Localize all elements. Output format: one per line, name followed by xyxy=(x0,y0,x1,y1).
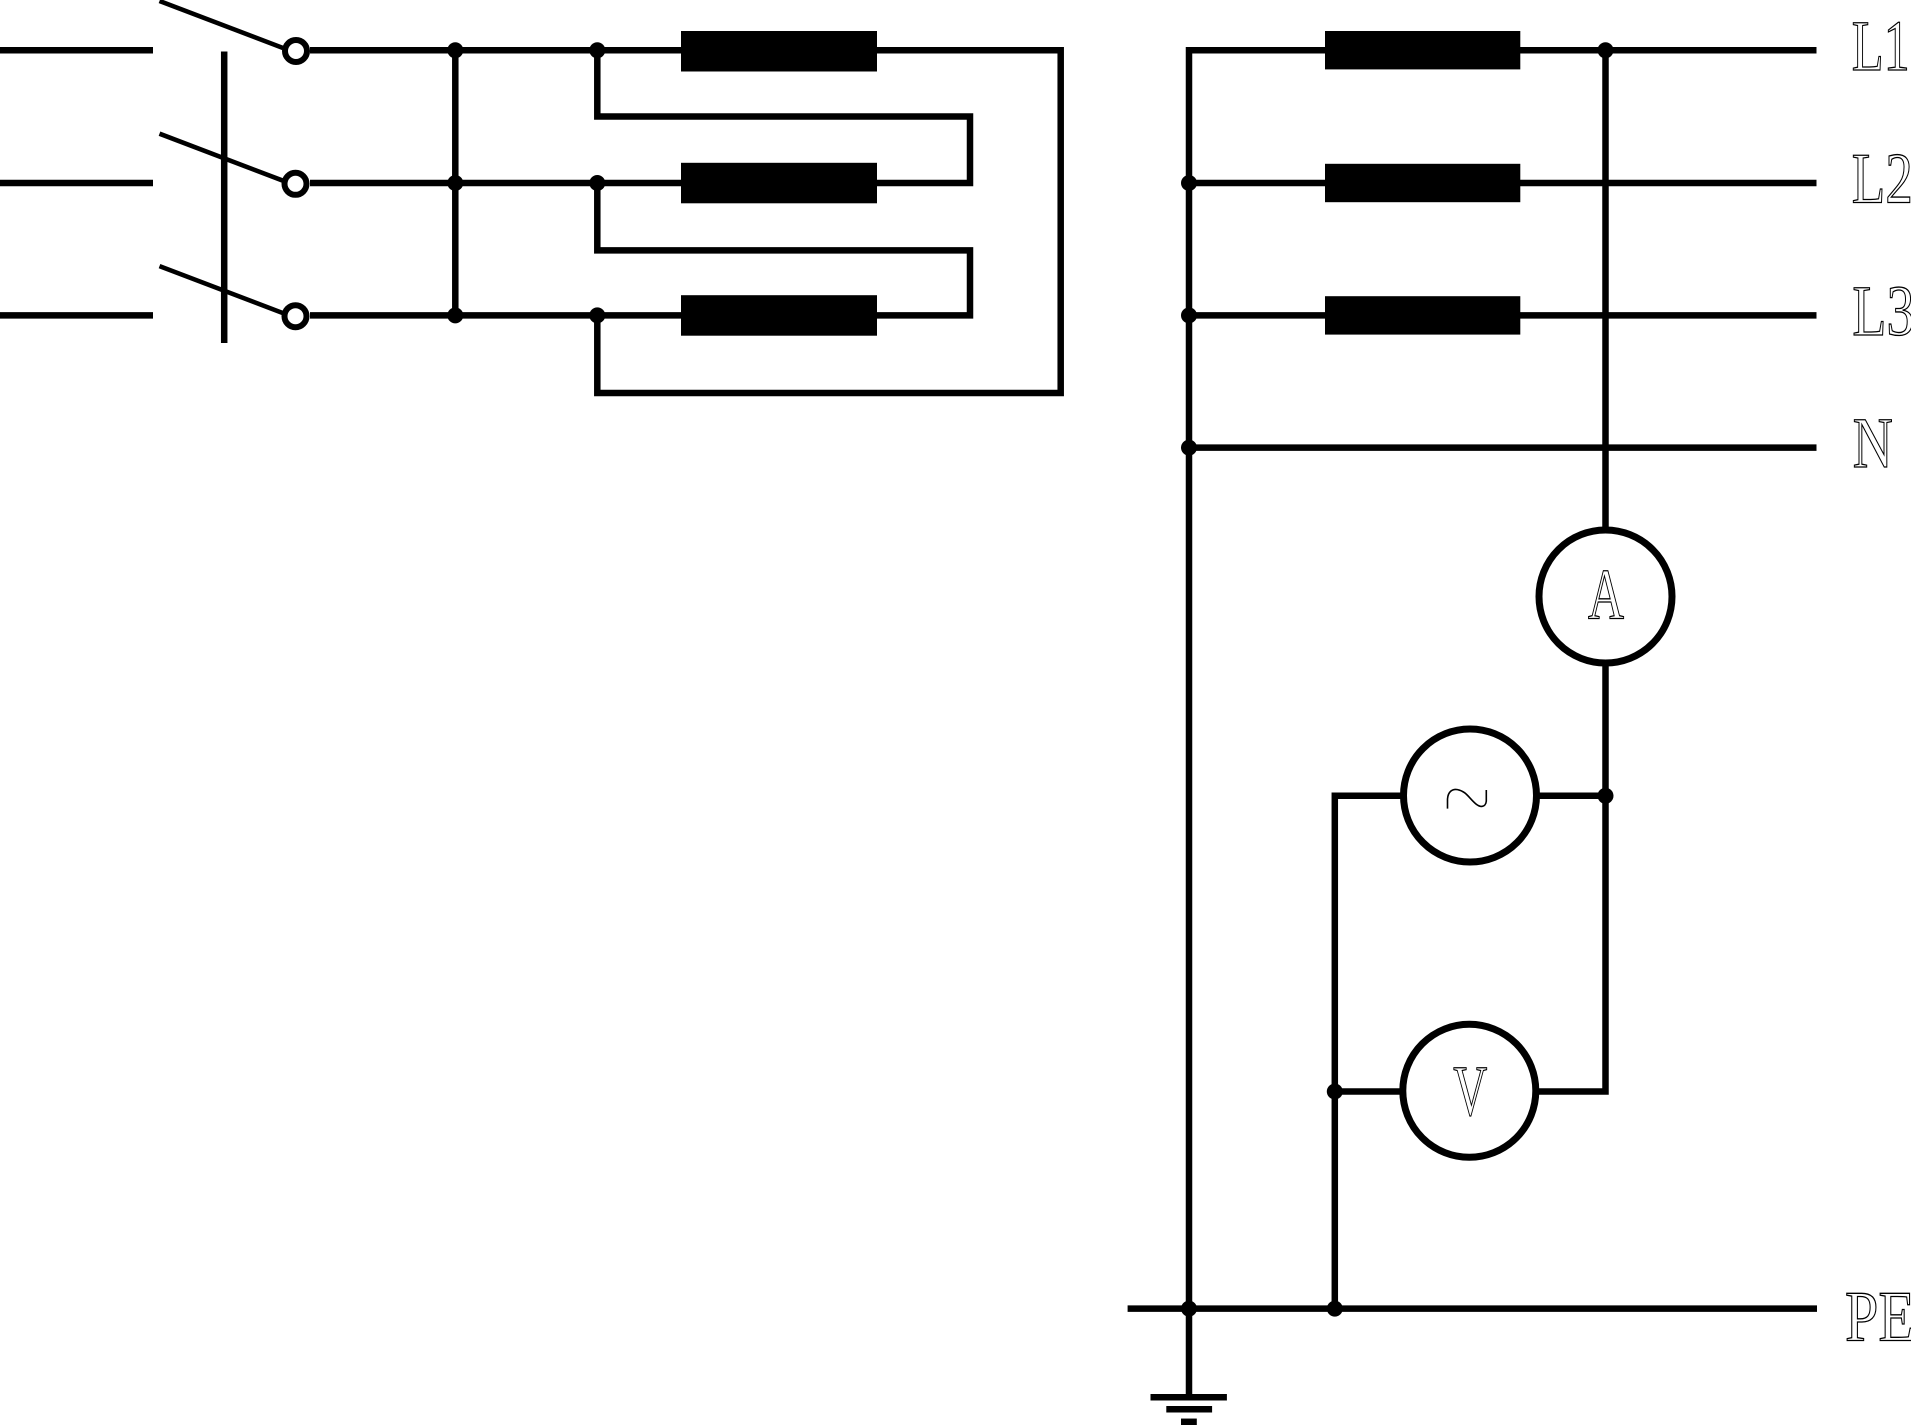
junction dot row1 x455 xyxy=(447,42,463,58)
wire row1 contact to fuse xyxy=(310,47,681,54)
junction dot source node xyxy=(1598,788,1614,804)
junction dot row2 x597 xyxy=(589,175,605,191)
junction dot PE bus xyxy=(1181,1301,1197,1317)
wire voltmeter left terminal xyxy=(1335,1088,1401,1095)
wire row3 contact to fuse xyxy=(310,312,681,319)
svg-text:L3: L3 xyxy=(1852,270,1911,351)
svg-text:A: A xyxy=(1588,554,1624,635)
source G circle xyxy=(1404,729,1537,862)
switch QS blade pole3 xyxy=(160,266,284,313)
fuse FU5 right L2 xyxy=(1325,164,1520,202)
wire input L3 left xyxy=(0,312,153,319)
svg-text:L1: L1 xyxy=(1852,5,1910,86)
wire right bus x1189 with L1 top run xyxy=(1189,50,1817,1396)
wire source right terminal xyxy=(1538,793,1606,800)
fuse FU2 left xyxy=(681,163,877,204)
voltmeter PV circle xyxy=(1403,1024,1536,1157)
svg-text:PE: PE xyxy=(1845,1276,1911,1357)
wire ammeter to source node xyxy=(1602,665,1609,796)
junction dot row1 x597 xyxy=(589,42,605,58)
ground earth bar3 xyxy=(1181,1419,1197,1425)
switch QS blade pole2 xyxy=(160,134,284,181)
wire line L3 right section xyxy=(1189,312,1817,319)
svg-text:N: N xyxy=(1853,402,1893,483)
svg-text:V: V xyxy=(1453,1050,1487,1131)
switch QS link bar xyxy=(221,52,228,344)
junction dot bus L3 xyxy=(1181,307,1197,323)
junction dot bus L2 xyxy=(1181,175,1197,191)
wire line L2 right section xyxy=(1189,180,1817,187)
wire source node down to voltmeter right xyxy=(1537,796,1606,1092)
junction dot row3 x597 xyxy=(589,307,605,323)
wire serpentine loop fuse3 out to row2 xyxy=(597,183,970,315)
switch contact circle pole2 xyxy=(285,173,307,195)
fuse FU4 right L1 xyxy=(1325,31,1520,69)
switch contact circle pole3 xyxy=(285,305,307,327)
wire input L1 left xyxy=(0,47,153,54)
switch contact circle pole1 xyxy=(285,40,307,62)
svg-text:L2: L2 xyxy=(1852,138,1911,219)
junction dot PE x1335 xyxy=(1327,1301,1343,1317)
wire shorting bus vertical x455 xyxy=(452,50,459,315)
junction dot row2 x455 xyxy=(447,175,463,191)
junction dot voltmeter left xyxy=(1327,1084,1343,1100)
fuse FU6 right L3 xyxy=(1325,296,1520,334)
wire serpentine loop fuse1 out to row3 xyxy=(597,50,1060,393)
ammeter PA circle xyxy=(1539,530,1672,663)
fuse FU3 left xyxy=(681,295,877,336)
switch QS blade pole1 xyxy=(160,1,284,48)
wire input L2 left xyxy=(0,180,153,187)
wire source left terminal down to PE xyxy=(1335,796,1401,1309)
ground earth bar2 xyxy=(1166,1406,1212,1413)
source AC tilde symbol xyxy=(1448,789,1487,808)
wire ammeter drop from L1 xyxy=(1602,50,1609,528)
wire line PE xyxy=(1128,1305,1817,1312)
fuse FU1 left xyxy=(681,31,877,72)
wire row2 contact to fuse xyxy=(310,180,681,187)
junction dot bus N xyxy=(1181,440,1197,456)
junction dot row3 x455 xyxy=(447,307,463,323)
junction dot L1 ammeter tap xyxy=(1598,42,1614,58)
wire line N xyxy=(1189,444,1817,451)
ground earth bar1 xyxy=(1151,1394,1227,1401)
wire serpentine loop fuse2 out to row1 xyxy=(597,50,970,183)
